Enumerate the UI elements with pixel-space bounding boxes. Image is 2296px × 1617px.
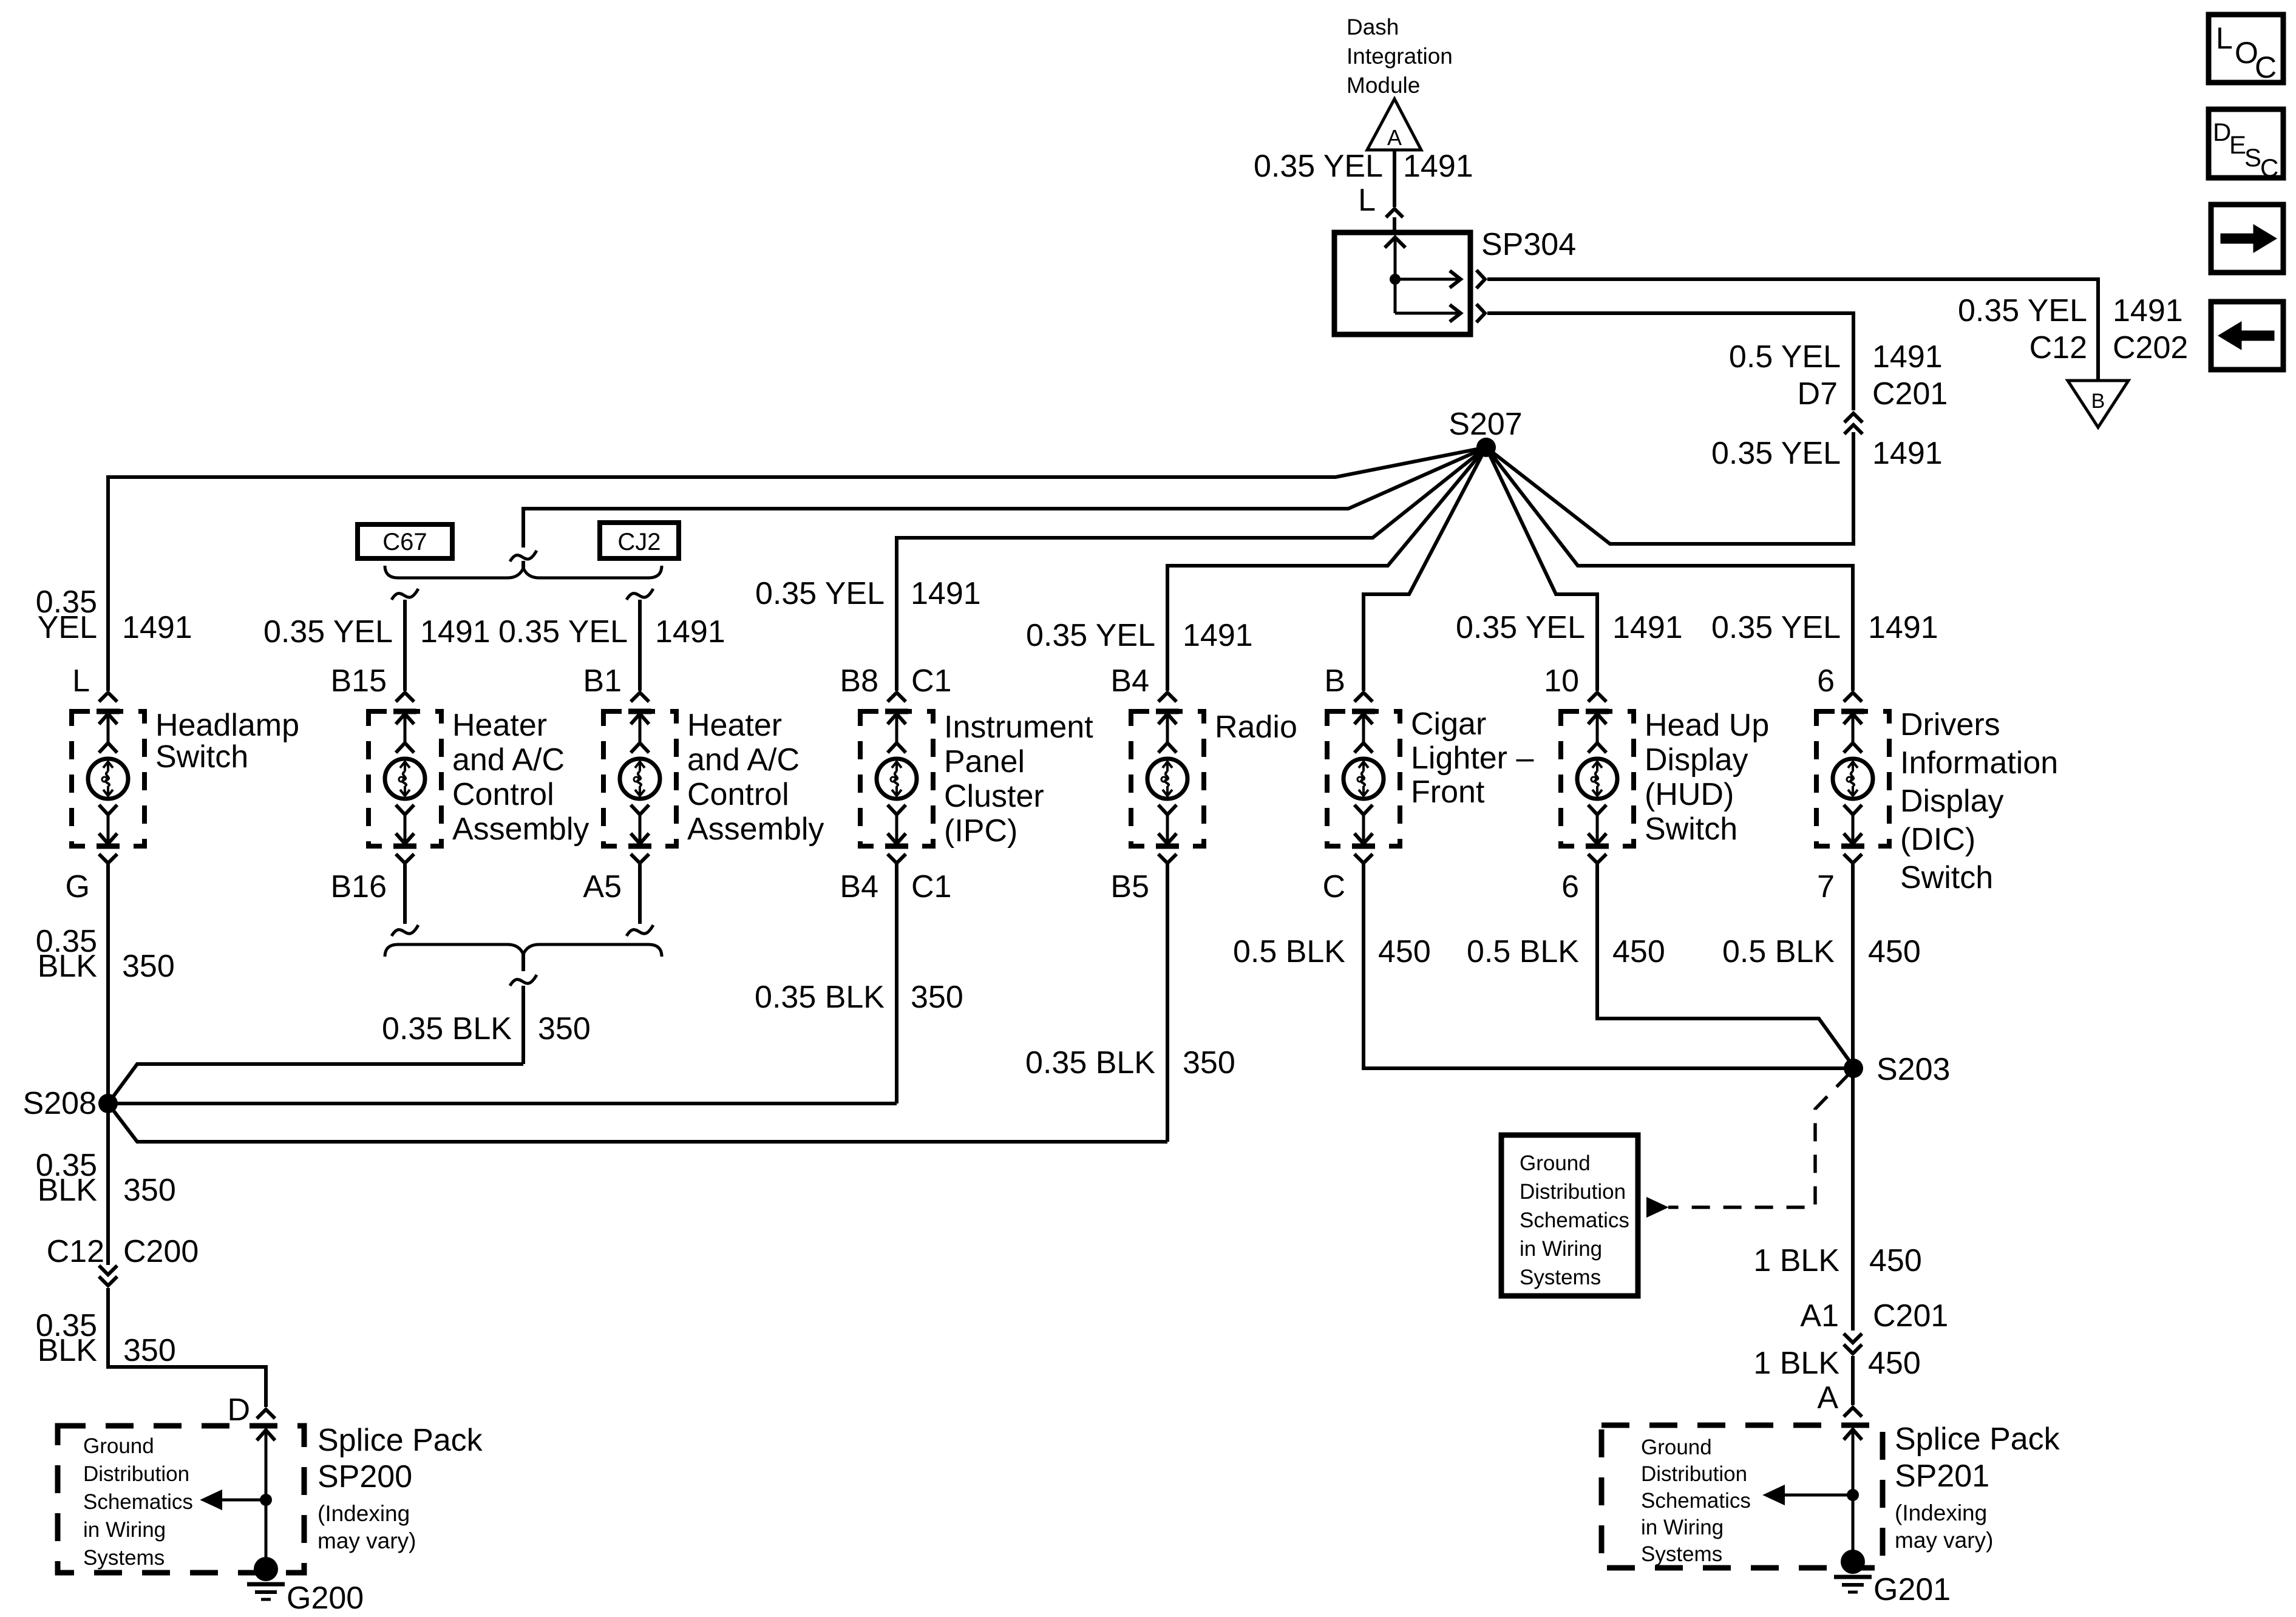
svg-text:Switch: Switch	[155, 739, 248, 775]
in-line connector C201 (D7)	[1844, 413, 1863, 434]
nav box forward arrow	[2211, 205, 2283, 273]
svg-text:YEL: YEL	[38, 610, 97, 645]
wire: HUD 6 to S203	[1597, 864, 1853, 1066]
label: 0.35 YEL 1491 (C202)	[1958, 293, 2183, 328]
svg-text:Schematics: Schematics	[1520, 1209, 1629, 1232]
svg-text:C: C	[2255, 50, 2277, 84]
wire: brace to squiggle (heater ground)	[521, 953, 525, 971]
chevron below Head Up Display (HUD) Switch	[1588, 854, 1606, 863]
svg-text:Radio: Radio	[1215, 710, 1297, 745]
svg-text:in Wiring: in Wiring	[83, 1518, 166, 1542]
svg-text:S203: S203	[1877, 1052, 1950, 1087]
svg-text:D: D	[227, 1392, 250, 1428]
label: 0.35 BLK 350 (below C200)	[36, 1308, 176, 1368]
svg-text:in Wiring: in Wiring	[1520, 1237, 1602, 1261]
label: 0.35 YEL 1491 (heater 1 feed)	[263, 614, 491, 649]
label: 0.35 BLK 350 (radio ground)	[1025, 1045, 1235, 1080]
svg-text:S208: S208	[23, 1086, 97, 1121]
wire: S207 to Radio	[1167, 447, 1486, 691]
svg-text:Integration: Integration	[1347, 44, 1453, 69]
off-page connector triangle A	[1367, 99, 1421, 150]
svg-text:and A/C: and A/C	[452, 742, 565, 778]
svg-text:(IPC): (IPC)	[944, 813, 1017, 849]
component: Headlamp Switch (lamp)	[72, 711, 144, 846]
svg-text:in Wiring: in Wiring	[1641, 1516, 1724, 1539]
svg-text:350: 350	[1183, 1045, 1235, 1080]
svg-text:B16: B16	[330, 869, 387, 904]
chevron above Cigar Lighter - Front	[1354, 693, 1373, 702]
svg-text:B: B	[1324, 663, 1345, 699]
label: D7 C201	[1798, 376, 1948, 412]
wire: S207 to DIC switch	[1486, 447, 1853, 691]
reference arrow (note to S203)	[1648, 1199, 1666, 1216]
label: Instrument Panel Cluster (IPC) name	[944, 710, 1093, 849]
wire: S208 to radio ground branch	[108, 1103, 1167, 1142]
svg-text:1491: 1491	[420, 614, 491, 649]
svg-text:A5: A5	[583, 869, 622, 904]
nav box DESC	[2209, 109, 2283, 182]
in-line connector C200	[99, 1266, 117, 1286]
wire: S208 to heater ground branch	[108, 1064, 523, 1103]
svg-text:450: 450	[1869, 1243, 1922, 1278]
svg-text:450: 450	[1868, 934, 1921, 969]
wire break squiggle (B1 top)	[627, 589, 653, 600]
svg-text:G: G	[66, 869, 90, 904]
svg-text:B5: B5	[1110, 869, 1149, 904]
svg-text:Assembly: Assembly	[687, 812, 824, 847]
svg-text:C67: C67	[382, 529, 427, 555]
svg-text:6: 6	[1817, 663, 1835, 699]
label: Heater and A/C Control Assembly 1 name	[452, 708, 589, 847]
brace top (heater split)	[385, 566, 662, 578]
wire: IPC B4 to S208 branch	[895, 864, 898, 1103]
svg-text:Ground: Ground	[83, 1434, 154, 1458]
wire break squiggle (heater ground)	[510, 975, 537, 986]
label: 0.35 YEL 1491 (headlamp feed)	[36, 585, 192, 645]
ground G201	[1834, 1550, 1951, 1607]
svg-text:0.35 YEL: 0.35 YEL	[263, 614, 393, 649]
in-line connector C201 (A1)	[1844, 1334, 1862, 1354]
svg-text:0.5 BLK: 0.5 BLK	[1467, 934, 1579, 969]
label: Dash Integration Module	[1347, 15, 1453, 98]
svg-text:Systems: Systems	[1641, 1542, 1722, 1566]
label: 0.35 BLK 350 (below S208)	[36, 1148, 176, 1208]
svg-text:Cigar: Cigar	[1411, 707, 1486, 742]
label: Headlamp Switch name	[155, 708, 299, 775]
svg-text:0.35 YEL: 0.35 YEL	[1711, 610, 1841, 645]
svg-text:C1: C1	[911, 869, 951, 904]
chevron above Heater and A/C Control Assembly 2	[631, 693, 649, 702]
connector box C67	[358, 524, 452, 558]
svg-text:Drivers: Drivers	[1900, 707, 2000, 742]
splice pack SP201 dashed box	[1601, 1425, 1883, 1568]
wire: A5 to bottom brace	[638, 864, 642, 924]
svg-text:C200: C200	[123, 1234, 199, 1269]
svg-text:Headlamp: Headlamp	[155, 708, 299, 743]
chevron above Instrument Panel Cluster (IPC)	[888, 693, 906, 702]
svg-text:450: 450	[1868, 1346, 1921, 1381]
svg-text:0.35 YEL: 0.35 YEL	[1711, 436, 1841, 471]
ground G200	[247, 1557, 364, 1616]
chevron above Heater and A/C Control Assembly 1	[396, 693, 414, 702]
svg-text:1491: 1491	[2113, 293, 2183, 328]
svg-text:Display: Display	[1900, 784, 2004, 819]
label: A1 C201	[1800, 1298, 1948, 1334]
component: Head Up Display (HUD) Switch (lamp)	[1561, 711, 1634, 846]
svg-text:C202: C202	[2113, 330, 2188, 365]
svg-text:0.5 BLK: 0.5 BLK	[1722, 934, 1835, 969]
svg-text:10: 10	[1544, 663, 1579, 699]
svg-text:0.35 BLK: 0.35 BLK	[382, 1011, 512, 1046]
label: 0.5 YEL 1491 (D7)	[1729, 339, 1943, 375]
svg-text:C12: C12	[47, 1234, 104, 1269]
svg-text:SP200: SP200	[318, 1459, 412, 1494]
nav box back arrow	[2211, 302, 2283, 370]
svg-text:Module: Module	[1347, 73, 1420, 98]
svg-text:E: E	[2229, 131, 2246, 159]
svg-text:Heater: Heater	[687, 708, 782, 743]
svg-text:Distribution: Distribution	[1641, 1462, 1747, 1486]
svg-text:Lighter –: Lighter –	[1411, 741, 1533, 776]
svg-text:0.35 YEL: 0.35 YEL	[1254, 149, 1383, 184]
chevron below Cigar Lighter - Front	[1354, 854, 1373, 863]
svg-text:Cluster: Cluster	[944, 779, 1044, 814]
svg-text:C1: C1	[911, 663, 951, 699]
svg-text:S207: S207	[1449, 407, 1522, 442]
wire: C201 to splice S207	[1486, 432, 1853, 544]
svg-text:Information: Information	[1900, 745, 2058, 781]
svg-text:may vary): may vary)	[318, 1528, 416, 1553]
svg-text:may vary): may vary)	[1895, 1528, 1993, 1553]
nav box LOC	[2209, 15, 2283, 84]
svg-text:0.35 BLK: 0.35 BLK	[755, 980, 885, 1015]
svg-text:C201: C201	[1873, 1298, 1948, 1334]
exit chevron SP304 out 1	[1476, 270, 1485, 288]
wire: brace to B15 pin	[403, 600, 407, 691]
label: 0.5 BLK 450 (DIC ground)	[1722, 934, 1921, 969]
svg-text:6: 6	[1561, 869, 1579, 904]
svg-text:S: S	[2244, 143, 2261, 172]
wire: radio B5 to S208 branch	[1166, 864, 1169, 1142]
svg-text:350: 350	[122, 949, 175, 984]
svg-text:Ground: Ground	[1520, 1151, 1591, 1175]
svg-text:D7: D7	[1798, 376, 1838, 412]
wire break squiggle (A5 bottom)	[627, 925, 653, 936]
svg-text:1 BLK: 1 BLK	[1753, 1243, 1839, 1278]
svg-text:0.5 BLK: 0.5 BLK	[1233, 934, 1345, 969]
wire: S207 to IPC	[897, 447, 1486, 691]
wire: squiggle to S208 branch	[521, 986, 525, 1064]
svg-text:Heater: Heater	[452, 708, 547, 743]
svg-text:1491: 1491	[1868, 610, 1938, 645]
component: Drivers Information Display (DIC) Switch (lamp)	[1816, 711, 1889, 846]
label: 0.35 YEL 1491 (below C201)	[1711, 436, 1943, 471]
component: Heater and A/C Control Assembly 2 (lamp)	[603, 711, 676, 846]
svg-text:1491: 1491	[1612, 610, 1683, 645]
svg-text:0.35 YEL: 0.35 YEL	[1958, 293, 2087, 328]
svg-text:0.35 BLK: 0.35 BLK	[1025, 1045, 1155, 1080]
svg-text:1491: 1491	[1872, 436, 1943, 471]
wire break squiggle (heater feed)	[510, 551, 537, 561]
svg-text:1 BLK: 1 BLK	[1753, 1346, 1839, 1381]
wire: headlamp G to S208 and C200	[106, 864, 110, 1265]
label: Splice Pack SP200 (Indexing may vary)	[318, 1423, 483, 1553]
note text: Ground Distribution Schematics in Wiring Systems (SP200)	[83, 1434, 193, 1570]
wire: C200 to SP200	[108, 1288, 266, 1407]
svg-text:Systems: Systems	[1520, 1266, 1601, 1289]
svg-text:C201: C201	[1872, 376, 1948, 412]
wire: SP304 to off-page B (C202)	[1487, 279, 2098, 381]
splice SP200 internal wire	[220, 1430, 275, 1569]
wire break squiggle (B15 top)	[392, 589, 418, 600]
svg-text:Schematics: Schematics	[83, 1490, 193, 1514]
label: Splice Pack SP201 (Indexing may vary)	[1895, 1422, 2060, 1553]
svg-text:Distribution: Distribution	[1520, 1180, 1626, 1204]
label: C12 C200	[47, 1234, 199, 1269]
wire break squiggle (B16 bottom)	[392, 925, 418, 936]
label: 0.35 BLK 350 (headlamp ground)	[36, 924, 175, 984]
svg-text:Splice Pack: Splice Pack	[1895, 1422, 2060, 1457]
note text: Ground Distribution Schematics in Wiring Systems (SP201)	[1641, 1436, 1751, 1566]
svg-text:Dash: Dash	[1347, 15, 1399, 39]
label: 1 BLK 450 (below C201)	[1753, 1346, 1920, 1381]
wire: S207 to heater branch	[523, 447, 1486, 547]
splice S207	[1449, 407, 1522, 457]
label: 0.35 YEL 1491 (IPC feed)	[755, 576, 981, 611]
wire: DIC 7 through S203 to C201	[1851, 864, 1855, 1331]
svg-text:and A/C: and A/C	[687, 742, 800, 778]
svg-text:B15: B15	[330, 663, 387, 699]
svg-text:L: L	[2216, 21, 2233, 55]
label: 0.35 YEL 1491 (heater 2 feed)	[498, 614, 725, 649]
chevron above SP201	[1844, 1408, 1862, 1417]
exit chevron SP304 out 2	[1476, 304, 1485, 322]
svg-text:Assembly: Assembly	[452, 812, 589, 847]
svg-text:(HUD): (HUD)	[1645, 777, 1734, 812]
splice S208	[23, 1086, 118, 1121]
connector box CJ2	[600, 523, 679, 558]
label: C12 C202	[2029, 330, 2189, 365]
svg-text:350: 350	[538, 1011, 591, 1046]
reference arrow (SP200 to schematics note)	[203, 1491, 221, 1508]
svg-text:(DIC): (DIC)	[1900, 822, 1975, 857]
svg-text:Control: Control	[687, 777, 789, 812]
chevron above Drivers Information Display (DIC) Switch	[1844, 693, 1862, 702]
splice pack SP304 box	[1334, 232, 1470, 334]
label: 1 BLK 450 (above C201)	[1753, 1243, 1921, 1278]
svg-text:Ground: Ground	[1641, 1436, 1712, 1459]
chevron below Drivers Information Display (DIC) Switch	[1844, 854, 1862, 863]
wire: S207 to Cigar Lighter	[1364, 447, 1486, 691]
svg-text:B4: B4	[840, 869, 878, 904]
brace bottom (heater merge)	[385, 944, 662, 957]
chevron below Instrument Panel Cluster (IPC)	[888, 854, 906, 863]
svg-text:350: 350	[123, 1173, 176, 1208]
svg-text:0.35 YEL: 0.35 YEL	[498, 614, 628, 649]
svg-text:1491: 1491	[1403, 149, 1473, 184]
svg-text:0.35 YEL: 0.35 YEL	[755, 576, 885, 611]
svg-text:B8: B8	[840, 663, 878, 699]
svg-text:(Indexing: (Indexing	[1895, 1500, 1987, 1525]
svg-text:7: 7	[1817, 869, 1835, 904]
svg-text:C: C	[2260, 154, 2278, 182]
svg-text:Panel: Panel	[944, 744, 1025, 779]
component: Radio (lamp)	[1131, 711, 1204, 846]
chevron below Headlamp Switch	[99, 854, 117, 863]
svg-text:A: A	[1817, 1380, 1838, 1415]
svg-text:350: 350	[911, 980, 963, 1015]
wire: SP304 to C201 D7	[1487, 313, 1853, 410]
svg-text:(Indexing: (Indexing	[318, 1501, 410, 1526]
wire: triangle A to SP304	[1393, 150, 1396, 207]
svg-text:1491: 1491	[1183, 618, 1253, 653]
svg-text:0.35 YEL: 0.35 YEL	[1026, 618, 1155, 653]
component: Heater and A/C Control Assembly 1 (lamp)	[369, 711, 441, 846]
svg-text:A: A	[1387, 125, 1402, 150]
svg-text:B: B	[2091, 390, 2105, 413]
svg-text:Distribution: Distribution	[83, 1462, 189, 1486]
svg-text:B4: B4	[1110, 663, 1149, 699]
svg-text:350: 350	[123, 1333, 176, 1368]
svg-text:B1: B1	[583, 663, 622, 699]
svg-text:D: D	[2213, 118, 2231, 146]
splice S203	[1844, 1052, 1950, 1087]
chevron below Heater and A/C Control Assembly 1	[396, 854, 414, 863]
wire: S207 to HUD switch	[1486, 447, 1597, 691]
wire: B16 to bottom brace	[403, 864, 407, 924]
wire: chevron to SP304 box	[1393, 217, 1396, 233]
label: Drivers Information Display (DIC) Switch name	[1900, 707, 2058, 895]
svg-text:C12: C12	[2029, 330, 2087, 365]
wire: C201 to SP201	[1851, 1356, 1855, 1405]
label: Cigar Lighter - Front name	[1411, 707, 1533, 810]
label: 0.5 BLK 450 (HUD ground)	[1467, 934, 1665, 969]
label: 0.35 YEL 1491 (DIM feed)	[1254, 149, 1473, 184]
chevron above Headlamp Switch	[99, 693, 117, 702]
off-page connector triangle B	[2068, 381, 2128, 427]
svg-text:G201: G201	[1873, 1572, 1951, 1607]
svg-text:BLK: BLK	[38, 1173, 98, 1208]
svg-text:1491: 1491	[122, 610, 192, 645]
splice pack SP200 dashed box	[58, 1426, 304, 1573]
svg-text:1491: 1491	[911, 576, 981, 611]
svg-text:SP304: SP304	[1481, 227, 1576, 262]
label: 0.35 YEL 1491 (HUD feed)	[1456, 610, 1683, 645]
reference arrow (SP201 to schematics note)	[1765, 1486, 1784, 1503]
label: Heater and A/C Control Assembly 2 name	[687, 708, 824, 847]
svg-text:0.5 YEL: 0.5 YEL	[1729, 339, 1841, 375]
svg-text:G200: G200	[287, 1581, 364, 1616]
svg-text:Splice Pack: Splice Pack	[318, 1423, 483, 1458]
svg-text:Front: Front	[1411, 775, 1485, 810]
label: 0.35 YEL 1491 (DIC feed)	[1711, 610, 1938, 645]
svg-text:BLK: BLK	[38, 1333, 98, 1368]
chevron above Head Up Display (HUD) Switch	[1588, 693, 1606, 702]
connector chevron on DIM wire	[1386, 209, 1403, 217]
svg-text:Instrument: Instrument	[944, 710, 1093, 745]
svg-text:1491: 1491	[1872, 339, 1943, 375]
label: 0.5 BLK 450 (cigar ground)	[1233, 934, 1431, 969]
chevron above SP200	[257, 1409, 275, 1419]
label: 0.35 BLK 350 (heater ground)	[382, 1011, 591, 1046]
svg-text:Schematics: Schematics	[1641, 1489, 1751, 1513]
svg-text:Head Up: Head Up	[1645, 708, 1769, 743]
component: Cigar Lighter - Front (lamp)	[1327, 711, 1400, 846]
svg-text:Switch: Switch	[1900, 860, 1993, 895]
label: Head Up Display (HUD) Switch name	[1645, 708, 1769, 847]
svg-text:C: C	[1322, 869, 1345, 904]
svg-text:L: L	[1358, 183, 1376, 218]
svg-text:Switch: Switch	[1645, 812, 1737, 847]
label: 0.35 YEL 1491 (radio feed)	[1026, 618, 1253, 653]
svg-text:BLK: BLK	[38, 949, 98, 984]
chevron below Radio	[1158, 854, 1177, 863]
wire: cigar C to S203	[1364, 864, 1853, 1068]
svg-text:Display: Display	[1645, 742, 1748, 778]
svg-text:0.35 YEL: 0.35 YEL	[1456, 610, 1585, 645]
svg-text:450: 450	[1378, 934, 1431, 969]
note box: Ground Distribution Schematics in Wiring Systems	[1501, 1135, 1638, 1296]
splice SP201 internal wire	[1785, 1429, 1862, 1562]
svg-text:Control: Control	[452, 777, 554, 812]
svg-text:L: L	[72, 663, 90, 699]
svg-text:SP201: SP201	[1895, 1459, 1989, 1494]
chevron above Radio	[1158, 693, 1177, 702]
label: 0.35 BLK 350 (IPC ground)	[755, 980, 963, 1015]
svg-text:A1: A1	[1800, 1298, 1839, 1334]
svg-text:450: 450	[1612, 934, 1665, 969]
component: Instrument Panel Cluster (IPC) (lamp)	[860, 711, 933, 846]
svg-text:CJ2: CJ2	[617, 529, 661, 555]
wire: S207 to Headlamp Switch	[108, 447, 1486, 691]
label: Radio name	[1215, 710, 1297, 745]
chevron below Heater and A/C Control Assembly 2	[631, 854, 649, 863]
wire: S208 to IPC ground	[108, 1102, 897, 1105]
svg-text:Systems: Systems	[83, 1546, 165, 1570]
wire: brace to B1 pin	[638, 600, 642, 691]
svg-text:1491: 1491	[655, 614, 725, 649]
wire: squiggle to brace	[521, 561, 525, 571]
dashed reference line from S203	[1668, 1074, 1849, 1207]
